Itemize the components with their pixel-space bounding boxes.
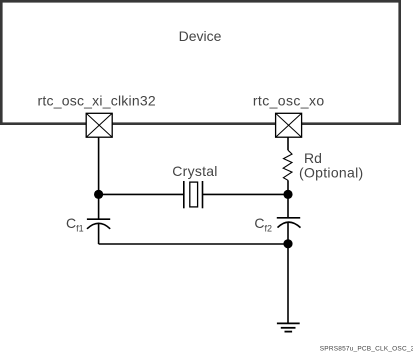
svg-text:Cf1: Cf1	[66, 215, 84, 234]
svg-text:rtc_osc_xi_clkin32: rtc_osc_xi_clkin32	[38, 92, 156, 108]
svg-text:Crystal: Crystal	[172, 163, 217, 179]
svg-text:rtc_osc_xo: rtc_osc_xo	[253, 92, 325, 108]
svg-text:Cf2: Cf2	[254, 215, 272, 234]
svg-text:SPRS857u_PCB_CLK_OSC_2: SPRS857u_PCB_CLK_OSC_2	[320, 346, 413, 353]
svg-text:Device: Device	[179, 28, 222, 44]
svg-text:(Optional): (Optional)	[299, 164, 363, 180]
